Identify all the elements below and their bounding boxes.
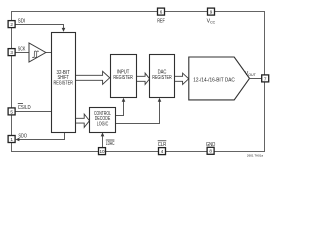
wire control logic to dac register [116,100,160,123]
svg-text:REGISTER: REGISTER [152,75,172,81]
svg-text:8: 8 [209,149,212,154]
pin 1 SDO [8,136,15,143]
pin 6 REF [158,8,165,15]
wire LDAC pin 10 up to control logic [102,135,104,148]
svg-text:2601 TA01a: 2601 TA01a [247,154,263,158]
arrowhead up into input register [122,98,126,102]
svg-text:4: 4 [161,149,164,154]
svg-text:CS/LD: CS/LD [18,105,31,111]
pin 9 VCC [208,8,215,15]
arrowhead SDO left [15,138,19,142]
svg-text:2: 2 [10,22,13,27]
block: control decode logic [90,108,116,133]
hollow bus arrow: input register to dac register [136,73,149,84]
pin 5 CS/LD [8,108,15,115]
pin 8 GND [207,147,214,154]
svg-text:REGISTER: REGISTER [113,75,133,81]
wire CS/LD pin 5 to shift register [15,111,51,113]
svg-text:10: 10 [99,149,105,154]
svg-text:7: 7 [264,76,267,81]
chip outline [12,12,265,152]
wire buffer out to shift register [46,52,52,54]
overline LDAC [106,139,115,141]
block: dac register [150,55,175,98]
arrowhead up into dac register [158,98,162,102]
svg-text:REGISTER: REGISTER [53,80,73,86]
svg-text:9: 9 [210,10,213,15]
hysteresis symbol [32,51,39,58]
svg-text:SDO: SDO [18,134,27,140]
overline CLR [158,140,167,142]
arrowhead SDI down [62,28,66,32]
wire control logic to input register [116,100,124,115]
svg-text:GND: GND [206,142,216,148]
svg-text:LOGIC: LOGIC [97,122,109,128]
hollow bus arrow: shift register to control decode logic [76,114,90,127]
svg-text:1: 1 [10,137,13,142]
svg-text:5: 5 [10,109,13,114]
wire SDO from shift register bottom to pin 1 [18,133,65,140]
block: 12-/14-/16-bit DAC (pentagon) [189,57,250,100]
overline on CS [18,103,23,105]
block: 32-bit shift register [52,33,76,133]
svg-text:REF: REF [157,19,165,25]
svg-text:SCK: SCK [18,47,26,53]
pin 10 LDAC [99,148,106,155]
svg-text:CLR: CLR [158,142,167,148]
pin 2 SDI [8,21,15,28]
svg-text:3: 3 [10,50,13,55]
block: input register [111,55,137,98]
pin 4 CLR [159,148,166,155]
svg-text:LDAC: LDAC [106,141,115,147]
buffer (Schmitt trigger) after SCK [29,43,46,62]
wire SDI from pin 2 to shift register top [15,25,63,30]
svg-text:SDI: SDI [18,18,25,24]
wire SCK pin 3 to buffer [15,52,29,54]
arrowhead LDAC up [101,132,105,136]
wire VOUT from DAC to pin 7 [250,78,262,80]
hollow bus arrow: shift register to input register [76,71,110,84]
svg-text:6: 6 [160,10,163,15]
pin 3 SCK [8,49,15,56]
pin 7 VOUT [262,75,269,82]
svg-text:12-/14-/16-BIT DAC: 12-/14-/16-BIT DAC [193,78,235,84]
hollow bus arrow: dac register to DAC [174,73,188,84]
